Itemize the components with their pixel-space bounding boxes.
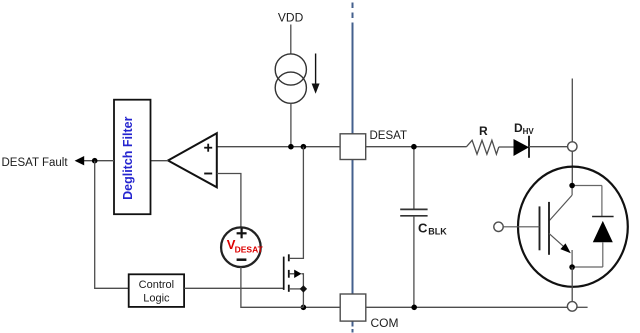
svg-text:R: R	[479, 124, 488, 138]
collector terminal circle	[568, 142, 577, 151]
wire VDESAT bottom to COM rail	[241, 267, 304, 307]
junction current source / DESAT net	[288, 144, 294, 150]
junction IGBT emitter node	[569, 264, 575, 270]
COM pad	[340, 294, 366, 321]
diode DHV	[514, 136, 530, 158]
svg-text:C: C	[418, 220, 428, 235]
junction DESAT Fault / feedback	[92, 158, 98, 164]
junction VDESAT / COM	[301, 305, 307, 311]
wire comparator minus input to VDESAT	[217, 174, 241, 228]
junction MOSFET drain / DESAT net	[301, 144, 307, 150]
wire VDD to current source	[290, 25, 292, 55]
junction MOSFET source (diamond)	[300, 285, 307, 292]
wire resistor to diode	[499, 146, 514, 148]
wire deglitch filter to DESAT Fault arrow	[84, 160, 114, 162]
deglitch filter block	[114, 100, 151, 215]
wire DESAT net (comparator + input to DESAT pad)	[217, 146, 340, 148]
label Control Logic	[139, 279, 174, 304]
collector stub wire (to high voltage)	[571, 79, 573, 142]
gate terminal circle	[494, 222, 503, 231]
wire control logic to MOSFET gate	[184, 287, 284, 289]
MOSFET Q2	[284, 147, 304, 292]
wire MOSFET source to COM rail	[302, 289, 304, 307]
svg-text:VDD: VDD	[278, 11, 304, 25]
COM rail wire	[303, 306, 567, 308]
wire IGBT emitter to COM terminal	[571, 267, 573, 301]
capacitor CBLK	[400, 147, 427, 308]
svg-text:Control: Control	[139, 279, 174, 291]
wire diode to collector terminal	[529, 146, 568, 148]
wire comparator output to deglitch filter	[151, 160, 169, 162]
label CBLK	[418, 220, 447, 236]
IGBT Q1	[540, 186, 573, 268]
wire terminal to IGBT collector	[571, 151, 573, 185]
IGBT module envelope circle	[518, 167, 628, 287]
wire gate terminal to IGBT gate	[503, 226, 539, 228]
svg-text:COM: COM	[371, 316, 399, 330]
wire current source to DESAT node	[290, 103, 292, 147]
emitter terminal circle	[567, 302, 577, 312]
svg-text:DESAT: DESAT	[235, 245, 264, 255]
svg-text:HV: HV	[523, 127, 535, 136]
wire DESAT pad to resistor	[366, 146, 466, 148]
voltage source VDESAT	[221, 227, 261, 267]
junction CBLK bottom / COM	[411, 305, 417, 311]
emitter stub wire	[577, 306, 587, 308]
current direction arrow	[312, 54, 320, 94]
junction IGBT collector node	[569, 183, 575, 189]
label DHV	[514, 121, 534, 136]
current source I1	[275, 54, 306, 103]
chip boundary dashed blue line	[352, 3, 354, 333]
DESAT Fault arrowhead	[75, 156, 85, 165]
resistor R	[466, 140, 499, 154]
label VDESAT	[227, 237, 264, 255]
svg-text:Logic: Logic	[143, 292, 170, 304]
freewheeling diode branch	[572, 186, 614, 268]
junction CBLK top	[411, 144, 417, 150]
svg-text:BLK: BLK	[428, 227, 447, 237]
control logic block	[129, 274, 184, 307]
svg-text:Deglitch Filter: Deglitch Filter	[121, 116, 135, 199]
svg-text:DESAT Fault: DESAT Fault	[2, 157, 69, 169]
DESAT pad	[340, 134, 366, 160]
svg-text:DESAT: DESAT	[370, 130, 408, 142]
comparator U1	[168, 133, 217, 187]
feedback wire to control logic	[95, 161, 129, 289]
